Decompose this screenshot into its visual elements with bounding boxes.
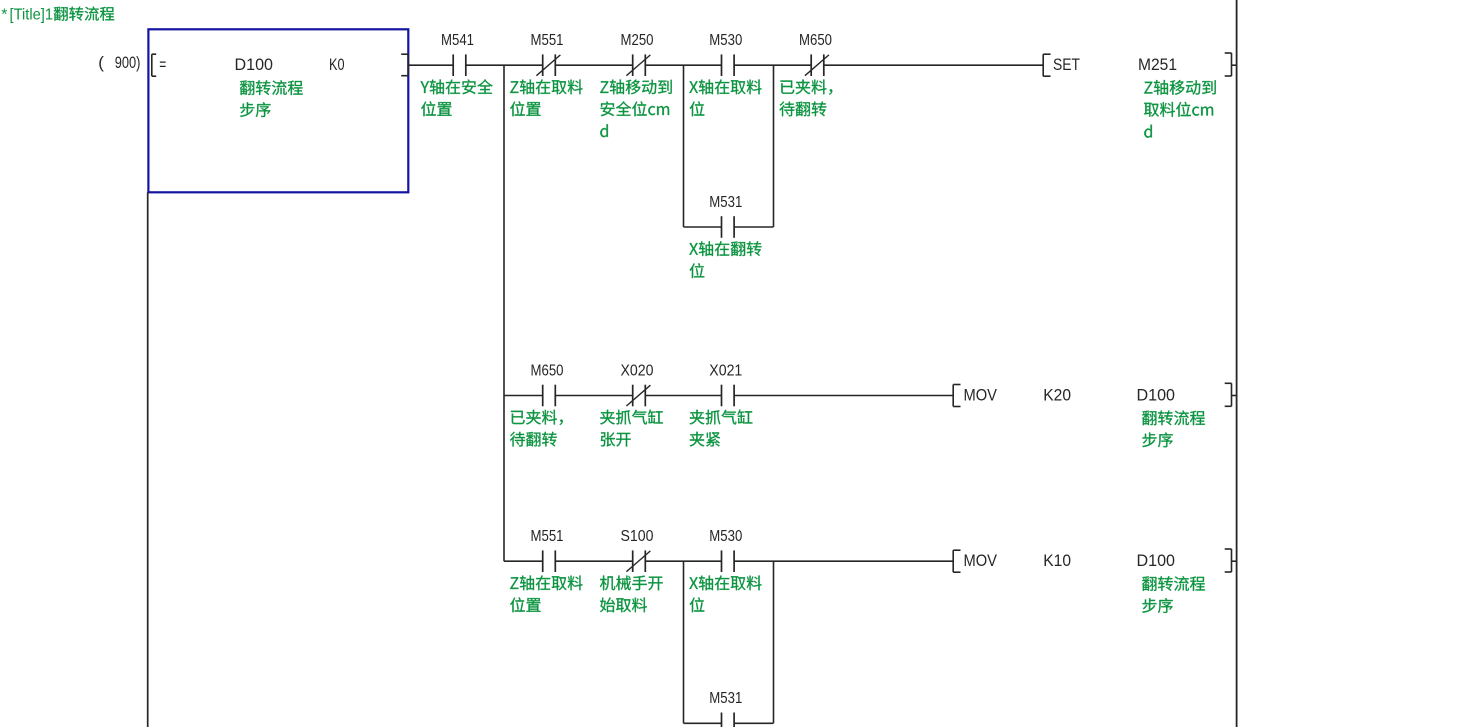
comment X轴在取料位	[689, 80, 761, 117]
comment 翻转流程步序 (rung 2 D100)	[1142, 411, 1205, 448]
comment X轴在翻转位	[689, 241, 761, 278]
comment 夹抓气缸张开	[600, 410, 663, 447]
contact M551 (NO)	[543, 550, 556, 572]
svg-text:M251: M251	[1138, 55, 1177, 74]
comment 翻转流程步序 (D100)	[240, 80, 303, 117]
comment X轴在取料位	[689, 576, 761, 613]
svg-text:M530: M530	[709, 32, 742, 49]
contact M531 (NO)	[722, 216, 735, 238]
contact M530 (NO)	[722, 54, 735, 76]
comparison instruction selection box (blue)	[148, 29, 408, 192]
comparison instruction right bracket	[401, 54, 408, 75]
svg-text:*: *	[1, 6, 7, 23]
svg-text:=: =	[159, 55, 166, 74]
svg-text:K0: K0	[329, 55, 345, 74]
contact M650 (NC)	[805, 54, 829, 76]
svg-text:M551: M551	[531, 528, 564, 545]
svg-text:M541: M541	[441, 32, 474, 49]
svg-text:M650: M650	[531, 362, 564, 379]
svg-text:(: (	[98, 53, 104, 72]
right power rail	[1236, 0, 1238, 727]
branch junction verticals for M531 parallel branch (rung 1)	[684, 65, 774, 227]
rung 2 branch corner from main left branch	[503, 65, 505, 561]
comment 夹抓气缸夹紧	[690, 410, 753, 447]
contact S100 (NC)	[626, 550, 650, 572]
contact X020 (NC)	[626, 385, 650, 407]
svg-text:MOV: MOV	[964, 385, 998, 404]
branch wire (rung 3 parallel)	[684, 722, 774, 724]
svg-text:900): 900)	[115, 53, 141, 72]
svg-text:M551: M551	[531, 32, 564, 49]
svg-text:MOV: MOV	[964, 551, 998, 570]
svg-text:M531: M531	[709, 194, 742, 211]
contact M541 (NO)	[453, 54, 466, 76]
svg-text:D100: D100	[1137, 551, 1176, 570]
branch junction verticals for M531 parallel branch (rung 3)	[684, 561, 774, 723]
instruction right bracket + rail stub (rung 1)	[1225, 53, 1238, 76]
instruction right bracket + rail stub (rung 3)	[1225, 549, 1238, 572]
rung 3 wire segments	[504, 560, 953, 562]
svg-text:M250: M250	[621, 32, 654, 49]
svg-text:K20: K20	[1043, 385, 1071, 404]
svg-text:M650: M650	[799, 32, 832, 49]
comment Z轴在取料位置	[510, 576, 582, 613]
contact M531 (NO)	[722, 713, 735, 727]
svg-text:X020: X020	[621, 362, 654, 379]
contact X021 (NO)	[722, 385, 735, 407]
rung 2 wire segments	[504, 395, 953, 397]
comment Z轴移动到取料位cmd (M251)	[1144, 80, 1216, 138]
comment 已夹料，待翻转	[780, 80, 833, 117]
svg-text:X021: X021	[709, 362, 742, 379]
comment 已夹料，待翻转	[510, 410, 563, 447]
contact M551 (NC)	[536, 54, 560, 76]
comment Z轴移动到安全位cmd	[600, 80, 671, 138]
instruction [MOV K10 D100] left bracket	[953, 550, 960, 572]
svg-text:M530: M530	[709, 528, 742, 545]
left rail / branch line below instruction box	[147, 192, 149, 727]
svg-text:S100: S100	[621, 528, 654, 545]
svg-text:SET: SET	[1053, 55, 1080, 74]
svg-text:D100: D100	[1137, 385, 1176, 404]
comment Y轴在安全位置	[421, 79, 493, 116]
instruction [MOV K20 D100] left bracket	[953, 385, 960, 407]
contact M650 (NO)	[543, 385, 556, 407]
contact M530 (NO)	[722, 550, 735, 572]
svg-text:[Title]1: [Title]1	[10, 6, 54, 23]
rung 1 wire segments	[408, 64, 1043, 66]
comparison instruction [= D100 K0] left bracket	[152, 54, 156, 76]
comment Z轴在取料位置	[510, 80, 582, 117]
branch wire (rung 1 parallel)	[684, 226, 774, 228]
instruction [SET M251] left bracket	[1043, 54, 1050, 76]
comment 机械手开始取料	[600, 576, 663, 613]
contact M250 (NC)	[626, 54, 650, 76]
svg-text:D100: D100	[235, 55, 274, 74]
svg-text:K10: K10	[1043, 551, 1071, 570]
comment 翻转流程步序 (rung 3 D100)	[1142, 576, 1205, 613]
title text 翻转流程	[54, 7, 114, 21]
svg-text:M531: M531	[709, 690, 742, 707]
instruction right bracket + rail stub (rung 2)	[1225, 383, 1238, 406]
